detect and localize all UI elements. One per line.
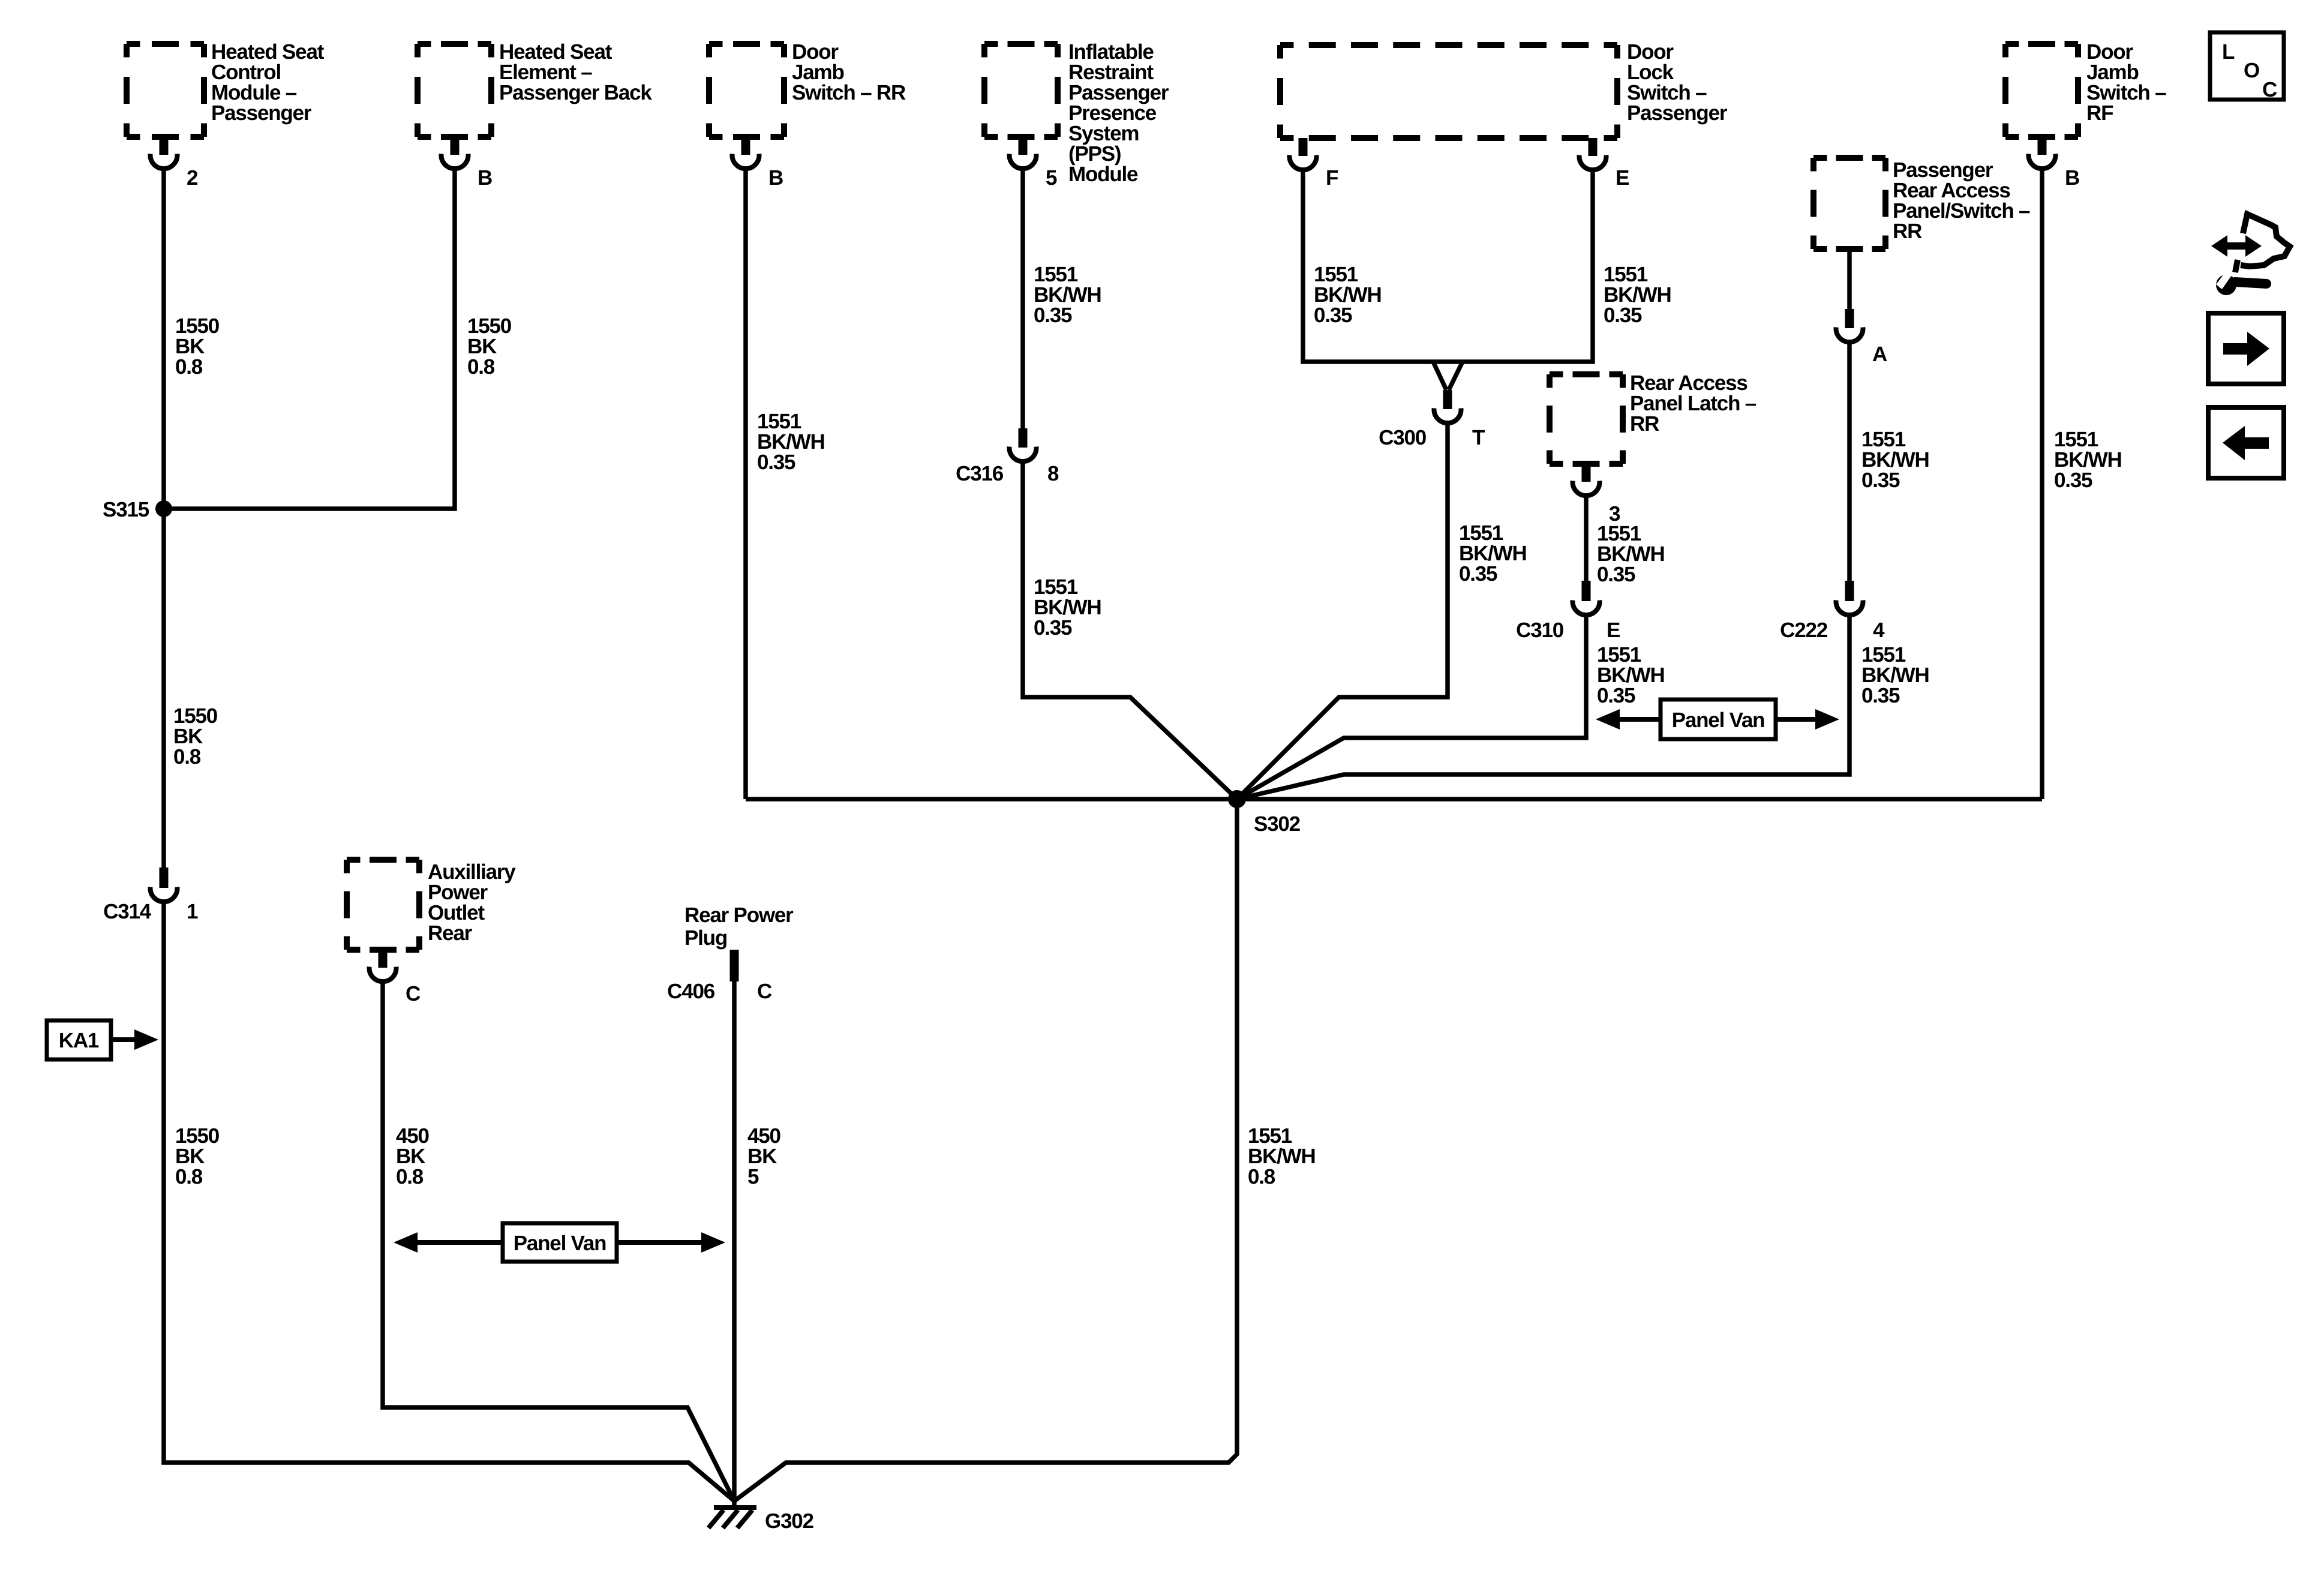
main ground bus through S302	[746, 797, 2042, 801]
connector pin C at Auxilliary Power Outlet	[379, 950, 388, 968]
svg-text:C: C	[2262, 78, 2277, 101]
svg-text:0.8: 0.8	[175, 355, 203, 379]
svg-text:Passenger: Passenger	[1627, 101, 1728, 125]
svg-text:0.8: 0.8	[396, 1165, 424, 1188]
svg-text:KA1: KA1	[59, 1029, 99, 1052]
arrow from KA1 box to wire	[111, 1037, 137, 1042]
svg-text:B: B	[768, 166, 783, 190]
svg-text:2: 2	[187, 166, 198, 190]
svg-text:C406: C406	[667, 980, 715, 1003]
arrow left from lower Panel Van box to aux wire	[415, 1240, 503, 1245]
svg-text:Panel Van: Panel Van	[514, 1232, 606, 1255]
in-line connector C316	[1019, 428, 1028, 448]
svg-text:Plug: Plug	[684, 926, 727, 950]
component box: Passenger Rear Access Panel/Switch - RR	[1813, 155, 1885, 161]
connector pin at Door Jamb Switch RR	[741, 137, 750, 155]
component box: Door Jamb Switch - RR	[709, 41, 784, 47]
svg-text:Rear Power: Rear Power	[684, 903, 794, 927]
svg-text:C: C	[406, 982, 421, 1005]
svg-text:E: E	[1616, 166, 1629, 190]
wire: Heated Seat Control Module pin 2 down to S315	[161, 170, 166, 509]
svg-text:E: E	[1607, 619, 1620, 642]
wire: Aux Power Outlet down, right, to ground G302	[383, 983, 734, 1501]
svg-text:0.8: 0.8	[173, 745, 201, 769]
svg-text:4: 4	[1873, 619, 1885, 642]
svg-text:Switch – RR: Switch – RR	[792, 81, 906, 104]
svg-text:S315: S315	[103, 498, 149, 521]
svg-text:Passenger Back: Passenger Back	[499, 81, 652, 104]
connector pin A at Passenger Rear Access Panel/Switch	[1845, 309, 1854, 328]
wire: Rear Access Panel Latch pin 3 down to C310	[1584, 497, 1589, 581]
svg-text:0.35: 0.35	[1604, 304, 1642, 327]
svg-text:C300: C300	[1379, 426, 1427, 449]
svg-text:0.35: 0.35	[1314, 304, 1352, 327]
svg-text:Rear: Rear	[428, 921, 473, 945]
component box: Auxilliary Power Outlet Rear	[347, 857, 419, 863]
component box: Door Jamb Switch - RF	[2005, 41, 2078, 47]
wire: Door Lock Switch pin F down to merge	[1303, 172, 1593, 362]
svg-text:T: T	[1472, 426, 1485, 449]
svg-text:Panel Van: Panel Van	[1672, 709, 1765, 732]
connector pin at Rear Access Panel Latch	[1582, 464, 1591, 482]
KA1 reference box	[47, 1020, 111, 1059]
svg-text:B: B	[2065, 166, 2079, 190]
svg-text:RR: RR	[1893, 220, 1922, 243]
svg-text:0.35: 0.35	[1034, 616, 1072, 640]
LOC legend box	[2210, 32, 2284, 100]
wire: S302 down, left to ground G302	[734, 799, 1237, 1501]
svg-text:S302: S302	[1254, 812, 1301, 836]
V merge of F and E wires into C300	[1433, 362, 1446, 390]
svg-text:Passenger: Passenger	[211, 101, 312, 125]
ground G302	[714, 1505, 756, 1510]
svg-text:8: 8	[1047, 462, 1059, 485]
in-line connector C222	[1845, 581, 1854, 601]
svg-text:0.8: 0.8	[467, 355, 495, 379]
svg-text:RF: RF	[2086, 101, 2113, 125]
svg-text:G302: G302	[765, 1509, 814, 1533]
connector pin at Heated Seat Control Module	[160, 137, 169, 155]
component box: Inflatable Restraint Passenger Presence System (PPS) Module	[984, 41, 1058, 47]
svg-text:RR: RR	[1630, 412, 1659, 436]
svg-text:O: O	[2244, 59, 2259, 82]
arrow left from Panel Van box to C310 wire	[1617, 717, 1661, 722]
svg-text:C310: C310	[1516, 619, 1564, 642]
svg-text:0.35: 0.35	[2054, 469, 2092, 492]
wire: Passenger Rear Access pin A down to C222	[1847, 344, 1852, 581]
wire: PPS Module pin 5 down to C316	[1020, 170, 1025, 428]
wire: Heated Seat Element pin B down and left to S315	[164, 170, 455, 509]
wire: C314 down, right to ground G302	[164, 903, 734, 1501]
component box: Heated Seat Element - Passenger Back	[418, 41, 491, 47]
wire: S315 down to connector C314	[161, 509, 166, 867]
component box: Heated Seat Control Module - Passenger	[127, 41, 204, 47]
arrow right from lower Panel Van box to plug wire	[617, 1240, 704, 1245]
wire: Door Jamb Switch RR pin B down to S302 bus	[743, 170, 748, 799]
wire: C222 down, left, diagonal to splice S302	[1237, 617, 1849, 799]
svg-text:C222: C222	[1780, 619, 1828, 642]
svg-text:0.35: 0.35	[1597, 563, 1635, 586]
wire: C316 down, jog right, diagonal to splice S302	[1023, 463, 1237, 799]
left-arrow legend box	[2208, 407, 2284, 478]
splice S315	[155, 500, 172, 517]
svg-text:0.35: 0.35	[1861, 469, 1900, 492]
component box: Door Lock Switch - Passenger	[1280, 42, 1617, 48]
connector pin at PPS Module	[1019, 137, 1028, 155]
svg-text:0.35: 0.35	[1861, 684, 1900, 707]
wire from Passenger Rear Access Panel/Switch to its pin	[1847, 249, 1852, 310]
svg-text:0.35: 0.35	[1034, 304, 1072, 327]
splice S302	[1228, 790, 1246, 808]
connector pin C406 (pigtail stub)	[730, 950, 739, 981]
svg-text:Module: Module	[1068, 163, 1138, 186]
svg-text:L: L	[2222, 40, 2235, 64]
svg-text:0.35: 0.35	[1597, 684, 1635, 707]
connector pin at Heated Seat Element	[451, 137, 460, 155]
svg-text:0.8: 0.8	[1248, 1165, 1275, 1188]
svg-text:C314: C314	[103, 900, 152, 923]
in-line connector C314	[160, 867, 169, 888]
svg-text:1: 1	[187, 900, 198, 923]
jump/repair icon (double arrow, harness outline, wrench)	[2211, 235, 2262, 257]
svg-text:C: C	[757, 980, 772, 1003]
svg-text:0.8: 0.8	[175, 1165, 203, 1188]
svg-text:F: F	[1326, 166, 1338, 190]
arrow right from Panel Van box to C222 wire	[1776, 717, 1818, 722]
wire: Rear Power Plug down to ground G302	[732, 981, 737, 1506]
in-line connector C300	[1443, 390, 1452, 409]
svg-text:A: A	[1872, 343, 1887, 366]
svg-text:0.35: 0.35	[757, 451, 795, 474]
connector pin F at Door Lock Switch	[1299, 138, 1308, 156]
Panel Van variant box (lower)	[503, 1223, 617, 1262]
in-line connector C310	[1582, 581, 1591, 601]
connector pin at Door Jamb Switch RF	[2038, 137, 2047, 155]
wire: C310 down, left, diagonal to splice S302	[1237, 617, 1586, 799]
wire: C300 down, jog left, diagonal to splice S302	[1237, 425, 1448, 799]
connector pin E at Door Lock Switch	[1589, 138, 1598, 156]
wire: Door Jamb Switch RF pin B down to S302 bus	[2040, 170, 2044, 799]
Panel Van variant box (upper)	[1661, 700, 1776, 739]
right-arrow legend box	[2208, 313, 2284, 384]
svg-text:C316: C316	[956, 462, 1004, 485]
svg-text:B: B	[478, 166, 492, 190]
component box: Rear Access Panel Latch - RR	[1550, 371, 1623, 377]
svg-text:5: 5	[1046, 166, 1057, 190]
svg-text:0.35: 0.35	[1459, 562, 1497, 586]
svg-text:5: 5	[747, 1165, 759, 1188]
